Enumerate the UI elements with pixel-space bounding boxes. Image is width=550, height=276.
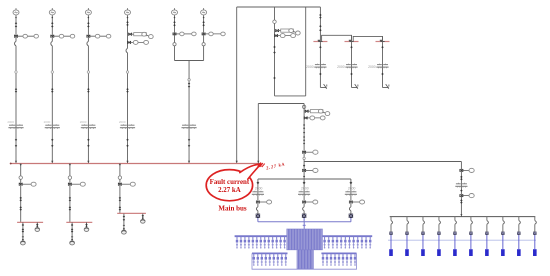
svg-text:2000: 2000 <box>80 120 87 124</box>
svg-text:2000: 2000 <box>119 120 126 124</box>
svg-text:2000: 2000 <box>337 65 345 69</box>
svg-text:2000: 2000 <box>306 65 314 69</box>
svg-text:Main bus: Main bus <box>218 205 246 213</box>
svg-text:2000: 2000 <box>348 187 356 191</box>
svg-text:2.27 kA: 2.27 kA <box>218 187 241 194</box>
svg-text:2000: 2000 <box>255 187 263 191</box>
svg-text:2000: 2000 <box>368 65 376 69</box>
svg-text:2000: 2000 <box>301 187 309 191</box>
svg-text:2000: 2000 <box>44 120 51 124</box>
svg-text:2000: 2000 <box>7 120 14 124</box>
svg-text:Fault current: Fault current <box>210 179 250 186</box>
